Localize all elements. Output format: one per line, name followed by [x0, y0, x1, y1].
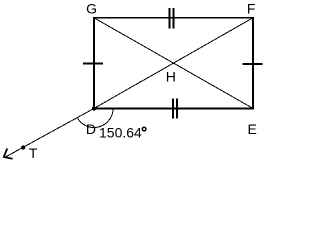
degree symbol of angle label: [142, 127, 146, 131]
svg-text:F: F: [247, 1, 256, 17]
rectangle side GD (left): [93, 17, 95, 109]
point dot T: [21, 145, 25, 149]
tick double bottom side DE: [172, 98, 174, 118]
point dot D: [92, 106, 96, 110]
svg-text:150.64: 150.64: [99, 125, 142, 141]
arrowhead at ray end: [4, 149, 13, 159]
diagonal GE: [94, 18, 253, 109]
rectangle GFED : side GF (top): [93, 17, 254, 19]
svg-text:H: H: [166, 68, 176, 84]
svg-text:E: E: [248, 121, 257, 137]
tick single right side FE: [242, 63, 262, 65]
tick single left side GD: [83, 63, 103, 65]
diagonal FD: [94, 18, 253, 109]
angle arc at D (150.64 deg): [77, 108, 113, 127]
svg-text:G: G: [86, 1, 97, 17]
svg-text:T: T: [29, 145, 38, 161]
rectangle side FE (right): [252, 17, 254, 109]
tick double top side GF: [169, 8, 171, 29]
svg-text:D: D: [86, 121, 96, 137]
ray D to T with arrow: [5, 108, 94, 157]
rectangle side DE (bottom): [93, 108, 254, 110]
